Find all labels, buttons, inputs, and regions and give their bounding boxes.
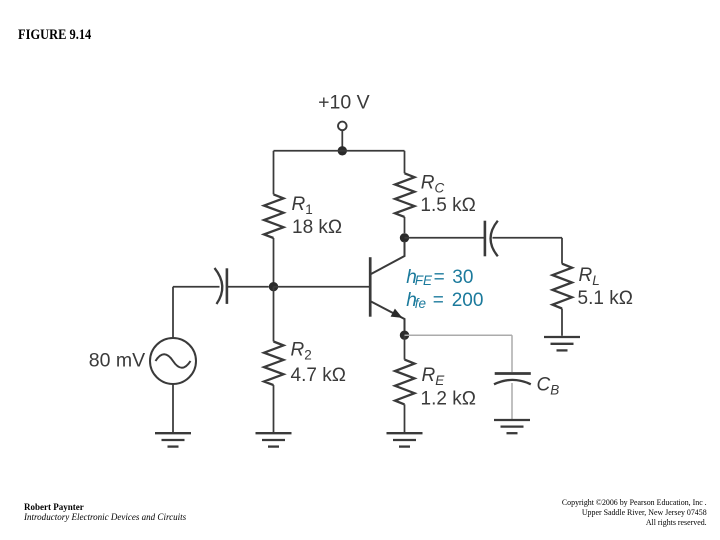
- svg-text:80 mV: 80 mV: [89, 349, 145, 371]
- svg-text:hFE=30: hFE=30: [406, 267, 473, 288]
- node base junction: [269, 282, 278, 291]
- resistor RL: [553, 264, 573, 309]
- wire emitter node to CB (gray): [405, 334, 513, 336]
- wire R2 to ground: [273, 385, 275, 432]
- wire terminal to top rail: [341, 130, 343, 147]
- svg-text:+10 V: +10 V: [318, 92, 370, 114]
- wire source to cap: [173, 286, 220, 288]
- svg-text:R2: R2: [291, 340, 312, 363]
- capacitor output coupling (curved plate): [491, 221, 498, 257]
- transistor Q1 emitter arrow: [391, 309, 403, 318]
- terminal +10V open circle: [338, 122, 347, 131]
- ground under CB: [494, 420, 530, 433]
- svg-text:1.5 kΩ: 1.5 kΩ: [420, 195, 475, 216]
- svg-text:1.2 kΩ: 1.2 kΩ: [421, 389, 476, 410]
- source VS circle: [150, 338, 196, 384]
- wire right branch down to RC: [404, 151, 406, 174]
- transistor Q1 collector lead: [371, 241, 405, 274]
- ground under RE: [387, 433, 423, 446]
- footer right copyright: [562, 498, 707, 527]
- ground under RL: [544, 337, 580, 350]
- resistor R2: [264, 342, 284, 386]
- footer left credits: [24, 503, 186, 522]
- svg-text:18 kΩ: 18 kΩ: [292, 217, 342, 238]
- svg-text:RC: RC: [421, 172, 445, 195]
- node collector junction: [400, 233, 409, 242]
- wire top rail: [274, 150, 405, 152]
- node emitter junction: [400, 331, 409, 340]
- wire down to CB (gray): [511, 335, 513, 372]
- wire RE to ground: [404, 404, 406, 432]
- resistor RC: [395, 173, 415, 217]
- svg-text:R1: R1: [292, 194, 313, 217]
- wire down to RL: [561, 238, 563, 264]
- wire source to ground: [172, 384, 174, 432]
- wire left branch down to R1: [273, 151, 275, 195]
- resistor RE: [395, 360, 415, 405]
- transistor Q1 base bar: [369, 257, 372, 317]
- svg-text:5.1 kΩ: 5.1 kΩ: [578, 288, 633, 309]
- capacitor input coupling (flat plate): [226, 268, 229, 304]
- svg-text:CB: CB: [537, 374, 560, 397]
- wire RL to ground: [561, 309, 563, 336]
- wire CB to ground (gray): [511, 383, 513, 419]
- capacitor CB curved bottom plate: [494, 380, 531, 384]
- capacitor input coupling (curved plate): [215, 268, 223, 304]
- wire cap to base node: [227, 286, 269, 288]
- ground under R2: [256, 433, 292, 446]
- wire down to source: [172, 287, 174, 338]
- svg-text:RE: RE: [422, 365, 446, 388]
- capacitor output coupling (flat plate): [484, 221, 487, 257]
- wire base node to transistor base: [274, 286, 370, 288]
- svg-text:RL: RL: [579, 265, 600, 288]
- wire base node down to R2: [273, 287, 275, 342]
- transistor Q1 emitter lead: [371, 302, 405, 332]
- wire cap to RL branch: [493, 237, 563, 239]
- ground under source: [155, 433, 191, 446]
- svg-text:hfe=200: hfe=200: [406, 290, 483, 311]
- figure caption: [18, 27, 91, 44]
- capacitor CB top plate: [495, 372, 531, 375]
- wire RC to collector node: [404, 217, 406, 233]
- svg-text:4.7 kΩ: 4.7 kΩ: [291, 365, 346, 386]
- node supply junction: [338, 146, 347, 155]
- resistor R1: [264, 194, 284, 238]
- source sine wave: [156, 354, 191, 368]
- wire R1 to base node: [273, 238, 275, 287]
- wire emitter node down to RE: [404, 335, 406, 359]
- wire collector node to output cap: [405, 237, 485, 239]
